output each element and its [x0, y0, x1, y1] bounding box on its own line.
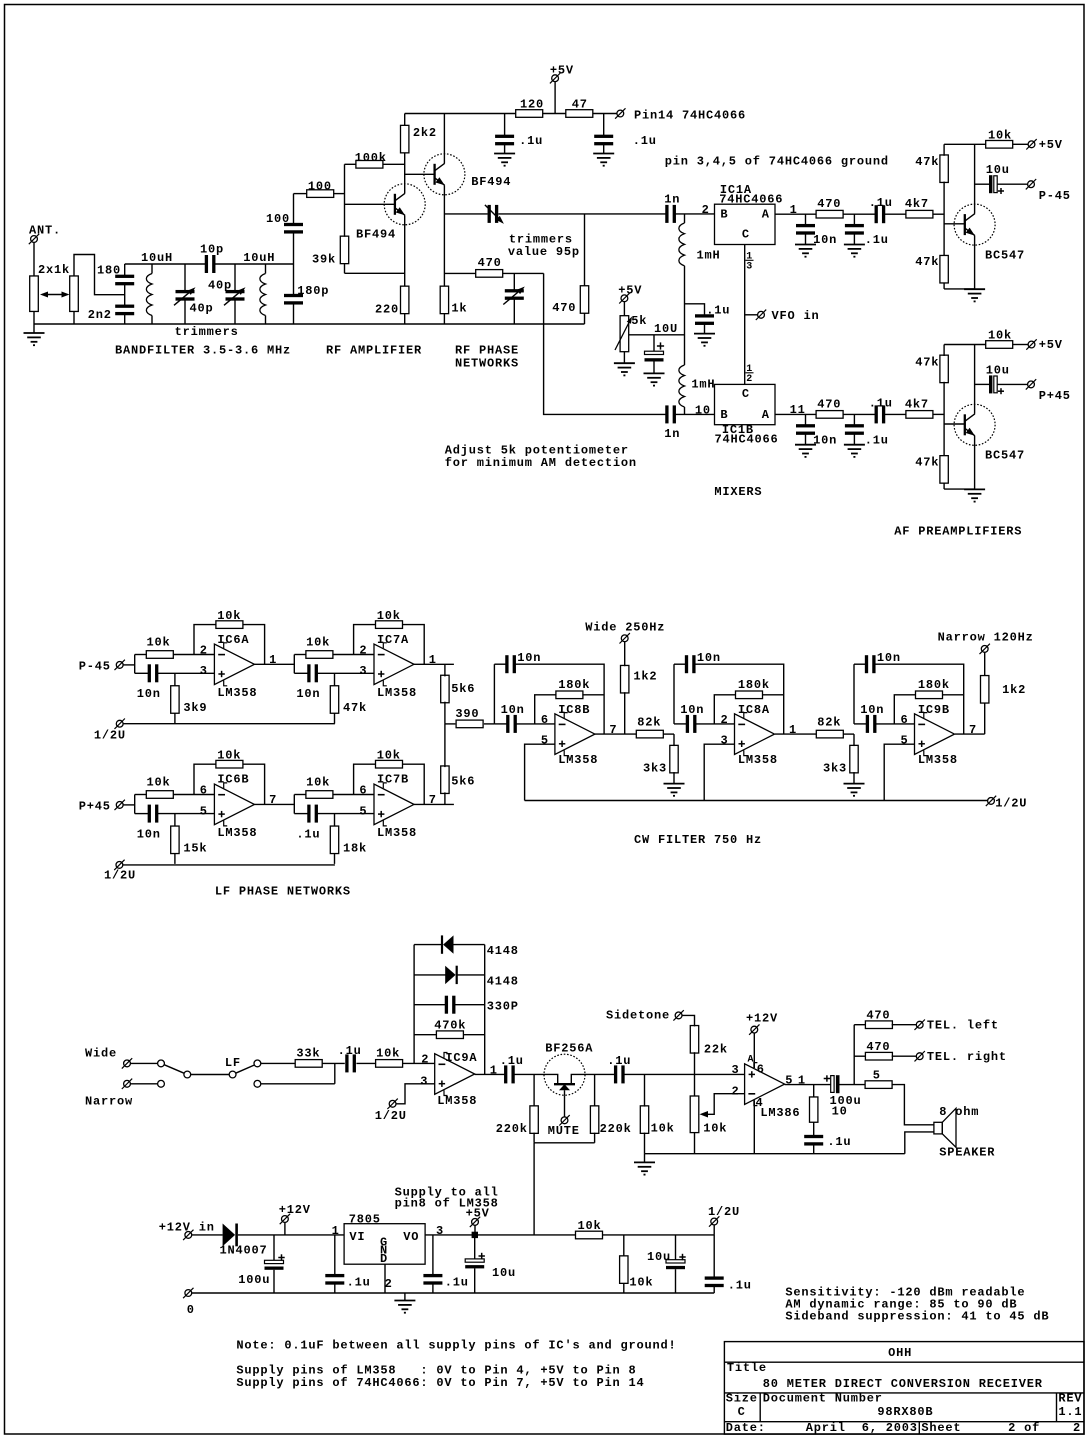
wire [74, 255, 125, 295]
svg-text:10U: 10U [654, 322, 678, 336]
switch pole 2 [229, 1071, 236, 1078]
wire base Q1 [345, 203, 395, 205]
wire narrow path [261, 1083, 335, 1085]
wire C pin column [744, 245, 746, 385]
rail 0V [192, 1292, 715, 1294]
wire [884, 213, 906, 215]
wire down to mixer2 [544, 273, 667, 414]
svg-text:LM358: LM358 [738, 753, 778, 767]
potentiometer 2x1k right [70, 276, 79, 312]
ground [795, 244, 816, 246]
wire [191, 1074, 230, 1076]
wire emitter [974, 236, 976, 289]
svg-text:A: A [748, 1055, 755, 1066]
svg-text:1/2U: 1/2U [708, 1205, 740, 1219]
svg-text:1mH: 1mH [697, 249, 721, 263]
svg-text:BC547: BC547 [985, 249, 1025, 263]
wire mixer out 2 [775, 413, 816, 415]
svg-text:470: 470 [817, 197, 841, 211]
wire emitter Q2 [443, 185, 445, 286]
bottom rail [34, 323, 585, 325]
wire 220k bottoms [534, 1142, 595, 1144]
svg-text:3: 3 [359, 664, 367, 678]
svg-text:3: 3 [732, 1063, 740, 1077]
svg-text:47k: 47k [915, 355, 939, 369]
svg-text:Wide: Wide [85, 1047, 117, 1061]
svg-text:5: 5 [901, 734, 909, 748]
svg-text:RF AMPLIFIER: RF AMPLIFIER [326, 344, 422, 358]
svg-text:BC547: BC547 [985, 449, 1025, 463]
svg-text:18k: 18k [343, 841, 367, 855]
svg-text:IC6B: IC6B [217, 773, 249, 787]
wire base 2 [944, 423, 965, 425]
svg-text:.1u: .1u [633, 134, 657, 148]
terminal MUTE [564, 1095, 566, 1117]
node vertical IC6A [134, 655, 136, 674]
wire [593, 113, 617, 115]
svg-text:LM358: LM358 [918, 753, 958, 767]
svg-text:1: 1 [790, 203, 798, 217]
svg-text:10n: 10n [296, 687, 320, 701]
svg-text:C: C [742, 227, 750, 241]
wire [843, 213, 876, 215]
svg-text:2n2: 2n2 [88, 308, 112, 322]
wire mixer out 1 [775, 213, 816, 215]
wire pin4 [753, 1100, 755, 1154]
wire [675, 213, 715, 215]
svg-text:5: 5 [200, 804, 208, 818]
wire wiper [629, 334, 685, 336]
wire [840, 1084, 866, 1086]
wire [933, 413, 944, 415]
svg-text:5k: 5k [631, 314, 647, 328]
svg-text:8 ohm: 8 ohm [939, 1105, 979, 1119]
wire out IC9A [475, 1073, 505, 1075]
svg-text:1/2U: 1/2U [995, 797, 1027, 811]
svg-text:330P: 330P [487, 1000, 519, 1014]
svg-text:100k: 100k [355, 151, 387, 165]
svg-text:47k: 47k [915, 255, 939, 269]
svg-text:CW FILTER 750 Hz: CW FILTER 750 Hz [634, 833, 762, 847]
svg-text:1k2: 1k2 [633, 670, 657, 684]
capacitor 10n shunt 2 [805, 414, 807, 425]
svg-text:pin 3,4,5 of 74HC4066 ground: pin 3,4,5 of 74HC4066 ground [665, 155, 889, 169]
ground [844, 444, 865, 446]
svg-text:LM358: LM358 [217, 826, 257, 840]
svg-text:Sidetone: Sidetone [606, 1009, 670, 1023]
svg-text:2: 2 [746, 374, 753, 385]
svg-text:2: 2 [1073, 1421, 1081, 1435]
svg-text:IC7B: IC7B [377, 773, 409, 787]
svg-text:Narrow: Narrow [85, 1095, 133, 1109]
svg-text:BANDFILTER 3.5-3.6 MHz: BANDFILTER 3.5-3.6 MHz [115, 344, 291, 358]
switch contact narrow [158, 1080, 165, 1087]
svg-text:10k: 10k [147, 776, 171, 790]
terminal VFO in [745, 314, 758, 316]
switch pole 1 [184, 1071, 191, 1078]
svg-text:220k: 220k [600, 1122, 632, 1136]
svg-text:3: 3 [200, 664, 208, 678]
svg-text:.1u: .1u [347, 1276, 371, 1290]
svg-text:10: 10 [832, 1105, 848, 1119]
op-amp LM386 [745, 1064, 785, 1105]
wire output IC7B [414, 803, 454, 805]
svg-text:D: D [380, 1252, 388, 1266]
wire top loop IC8A [694, 664, 783, 734]
node vertical IC7A [293, 655, 295, 674]
wire pin5 IC9B [884, 744, 914, 800]
svg-text:AF PREAMPLIFIERS: AF PREAMPLIFIERS [894, 525, 1022, 539]
svg-text:.1u: .1u [827, 1135, 851, 1149]
svg-text:2: 2 [421, 1053, 429, 1067]
svg-text:IC9A: IC9A [445, 1051, 477, 1065]
svg-text:1/2U: 1/2U [104, 869, 136, 883]
node vertical IC6B [134, 795, 136, 814]
wire out IC8B [595, 733, 636, 735]
wire [884, 413, 906, 415]
svg-text:Date:: Date: [726, 1421, 766, 1435]
wire pin5 IC8B [525, 744, 555, 800]
wire [33, 312, 35, 325]
tank rail [125, 263, 206, 265]
wire [261, 1062, 295, 1064]
svg-text:LF PHASE NETWORKS: LF PHASE NETWORKS [215, 885, 351, 899]
svg-text:LM358: LM358 [437, 1094, 477, 1108]
svg-text:7: 7 [969, 723, 977, 737]
svg-text:IC6A: IC6A [217, 633, 249, 647]
wire tel riser [853, 1025, 855, 1085]
svg-text:6: 6 [901, 713, 909, 727]
wiper arrow volume [707, 1094, 745, 1115]
wire out IC9B [955, 733, 985, 735]
svg-text:1k: 1k [451, 302, 467, 316]
svg-text:1n: 1n [664, 427, 680, 441]
terminal TEL left [916, 1021, 923, 1028]
svg-text:B: B [720, 408, 728, 422]
svg-text:82k: 82k [637, 716, 661, 730]
svg-text:220k: 220k [496, 1122, 528, 1136]
switch contact 2 bottom [254, 1080, 261, 1087]
wire base column [344, 164, 346, 236]
svg-text:10n: 10n [137, 687, 161, 701]
svg-text:RF PHASE: RF PHASE [455, 344, 519, 358]
terminal 1/2U audio [389, 1100, 396, 1107]
wire out IC8A [775, 733, 816, 735]
svg-text:Supply pins of 74HC4066: 0V to: Supply pins of 74HC4066: 0V to Pin 7, +5… [236, 1376, 644, 1390]
svg-text:Note: 0.1uF between all supply: Note: 0.1uF between all supply pins of I… [236, 1339, 676, 1353]
svg-text:2: 2 [721, 713, 729, 727]
svg-text:IC8A: IC8A [738, 703, 770, 717]
svg-text:VI: VI [349, 1230, 365, 1244]
capacitor .1u mixer [685, 304, 705, 316]
wire [543, 113, 566, 115]
trimmer capacitor mid [513, 273, 515, 290]
wire collector Q1 [404, 153, 406, 194]
svg-text:10n: 10n [877, 651, 901, 665]
wire output IC7A [414, 663, 454, 665]
ground [33, 324, 35, 333]
svg-text:10k: 10k [306, 776, 330, 790]
rail 1/2U cw [525, 800, 988, 802]
terminal 0V [185, 1290, 192, 1297]
svg-text:value 95p: value 95p [508, 245, 580, 259]
wire output IC6A [254, 663, 294, 665]
svg-text:.1u: .1u [869, 196, 893, 210]
svg-text:82k: 82k [817, 716, 841, 730]
ground [644, 372, 665, 374]
svg-text:10uH: 10uH [243, 251, 275, 265]
svg-text:10u: 10u [492, 1266, 516, 1280]
wire [933, 213, 944, 215]
svg-text:OHH: OHH [888, 1346, 912, 1360]
wire [585, 1073, 615, 1075]
ground [964, 488, 985, 490]
svg-text:33k: 33k [296, 1047, 320, 1061]
rail 1/2U row2 [123, 864, 335, 866]
svg-text:trimmers: trimmers [175, 325, 239, 339]
svg-text:IC7A: IC7A [377, 633, 409, 647]
svg-text:10n: 10n [813, 433, 837, 447]
svg-text:100u: 100u [238, 1273, 270, 1287]
svg-text:3: 3 [436, 1224, 444, 1238]
svg-text:220: 220 [375, 303, 399, 317]
wire emitter [974, 436, 976, 489]
svg-text:.1u: .1u [338, 1044, 362, 1058]
terminal 1/2U row1 [116, 720, 123, 727]
svg-text:10n: 10n [813, 233, 837, 247]
svg-text:SPEAKER: SPEAKER [939, 1146, 995, 1160]
wire down to supply [533, 1143, 535, 1235]
trimmer capacitor series [488, 205, 491, 223]
wire output IC6B [254, 803, 294, 805]
svg-text:6: 6 [200, 784, 208, 798]
svg-text:4148: 4148 [487, 944, 519, 958]
svg-text:10uH: 10uH [141, 251, 173, 265]
svg-text:REV: REV [1058, 1392, 1082, 1406]
transistor Q1 BF494 [384, 184, 425, 225]
svg-text:1/2U: 1/2U [375, 1109, 407, 1123]
svg-text:1mH: 1mH [691, 378, 715, 392]
svg-text:1: 1 [798, 1073, 806, 1087]
capacitor 10n shunt 1 [805, 214, 807, 225]
svg-text:C: C [742, 387, 750, 401]
switch blade 1 [164, 1065, 184, 1074]
switch blade 2 [236, 1065, 255, 1073]
terminal Pin14 [617, 110, 624, 117]
svg-text:Sideband suppression: 41 to 45: Sideband suppression: 41 to 45 dB [785, 1310, 1049, 1324]
svg-text:6: 6 [541, 713, 549, 727]
wire pin3 to 1/2U [396, 1084, 435, 1104]
svg-text:Title: Title [727, 1361, 767, 1375]
svg-text:.1u: .1u [869, 396, 893, 410]
svg-text:10n: 10n [517, 651, 541, 665]
feedback ladder right [484, 945, 486, 1075]
svg-text:47k: 47k [915, 455, 939, 469]
svg-text:2: 2 [385, 1277, 393, 1291]
svg-text:1: 1 [269, 653, 277, 667]
svg-text:47k: 47k [915, 155, 939, 169]
svg-text:10k: 10k [306, 636, 330, 650]
svg-text:10k: 10k [147, 636, 171, 650]
svg-text:3: 3 [420, 1075, 428, 1089]
svg-text:for minimum AM detection: for minimum AM detection [445, 456, 637, 470]
svg-text:100: 100 [308, 180, 332, 194]
svg-text:40p: 40p [190, 302, 214, 316]
svg-text:BF494: BF494 [471, 175, 511, 189]
ground [844, 783, 865, 785]
svg-text:5k6: 5k6 [451, 775, 475, 789]
capacitor .1u zobel [804, 1135, 823, 1138]
svg-text:4: 4 [756, 1096, 764, 1110]
svg-text:LM358: LM358 [377, 686, 417, 700]
wire gnd pin [384, 1264, 386, 1293]
wire pin6 +12V [753, 1033, 755, 1068]
trimmer capacitor 40p left [184, 264, 186, 292]
svg-text:47k: 47k [343, 701, 367, 715]
wire [345, 272, 405, 274]
svg-text:11: 11 [790, 403, 806, 417]
wire [73, 312, 75, 325]
svg-text:4148: 4148 [487, 975, 519, 989]
wire [498, 213, 666, 215]
svg-text:74HC4066: 74HC4066 [715, 433, 779, 447]
svg-text:Document Number: Document Number [763, 1392, 883, 1406]
node vertical IC9B [853, 664, 855, 724]
svg-text:TEL. right: TEL. right [927, 1050, 1007, 1064]
ground [844, 244, 865, 246]
wire top loop IC8B [515, 664, 604, 734]
svg-text:10k: 10k [703, 1122, 727, 1136]
terminal 1/2U row2 [116, 862, 123, 869]
svg-text:A: A [762, 208, 770, 222]
svg-text:4k7: 4k7 [905, 397, 929, 411]
svg-text:10k: 10k [629, 1276, 653, 1290]
rail half u [603, 1234, 714, 1236]
svg-text:+5V: +5V [466, 1207, 490, 1221]
svg-text:2 of: 2 of [1008, 1421, 1040, 1435]
svg-text:1n: 1n [664, 193, 680, 207]
svg-text:VO: VO [403, 1230, 419, 1244]
wire [944, 288, 975, 290]
wire collector Q2 [443, 114, 445, 164]
ground [593, 153, 614, 155]
wire VO [425, 1234, 575, 1236]
resistor 10 zobel [813, 1085, 815, 1097]
svg-text:A: A [762, 408, 770, 422]
svg-text:180k: 180k [558, 678, 590, 692]
wire top loop IC9B [874, 664, 963, 734]
svg-text:180k: 180k [738, 678, 770, 692]
svg-text:10n: 10n [697, 651, 721, 665]
svg-text:470: 470 [552, 301, 576, 315]
wire [944, 488, 975, 490]
svg-text:MUTE: MUTE [548, 1124, 580, 1138]
svg-text:Size: Size [726, 1392, 758, 1406]
svg-text:VFO in: VFO in [772, 309, 820, 323]
svg-text:2k2: 2k2 [413, 126, 437, 140]
svg-text:10u: 10u [986, 363, 1010, 377]
wire 470 row [444, 272, 475, 274]
svg-text:10u: 10u [986, 163, 1010, 177]
node vertical IC8A [673, 664, 675, 724]
svg-text:390: 390 [455, 707, 479, 721]
svg-text:470: 470 [478, 256, 502, 270]
svg-text:Wide 250Hz: Wide 250Hz [585, 621, 665, 635]
wire RF out [444, 213, 487, 215]
svg-text:5: 5 [359, 804, 367, 818]
svg-text:.1u: .1u [519, 134, 543, 148]
svg-text:39k: 39k [312, 253, 336, 267]
svg-text:22k: 22k [704, 1043, 728, 1057]
title block frame [724, 1342, 1084, 1435]
svg-text:Pin14 74HC4066: Pin14 74HC4066 [634, 109, 746, 123]
svg-text:NETWORKS: NETWORKS [455, 357, 519, 371]
svg-text:3k9: 3k9 [183, 701, 207, 715]
svg-text:98RX80B: 98RX80B [877, 1405, 933, 1419]
potentiometer 2x1k left [30, 276, 39, 312]
wire pin5 IC8A [704, 744, 734, 800]
switch contact wide [158, 1060, 165, 1067]
terminal +5V 2 [1028, 341, 1035, 348]
svg-text:4k7: 4k7 [905, 197, 929, 211]
svg-text:10u: 10u [647, 1250, 671, 1264]
svg-text:10n: 10n [860, 703, 884, 717]
switch contact 2 top [254, 1060, 261, 1067]
wire collector [974, 345, 976, 414]
ground [494, 153, 515, 155]
wire [334, 1063, 336, 1083]
svg-text:BF256A: BF256A [545, 1042, 593, 1056]
capacitor .1u shunt 1 [853, 214, 855, 225]
svg-text:3: 3 [721, 734, 729, 748]
diode 4148 top [414, 944, 442, 946]
svg-text:7: 7 [269, 793, 277, 807]
terminal +5V 1 [1028, 141, 1035, 148]
speaker [934, 1122, 942, 1134]
svg-text:April 6, 2003: April 6, 2003 [806, 1421, 918, 1435]
junction dot [472, 1232, 478, 1238]
ground rail audio [645, 1153, 905, 1155]
top rail +5V [405, 113, 516, 115]
wire [892, 1085, 934, 1125]
svg-text:10n: 10n [137, 827, 161, 841]
ground [795, 444, 816, 446]
terminal +12V lm386 [751, 1026, 758, 1033]
svg-text:1: 1 [490, 1064, 498, 1078]
svg-text:1/2U: 1/2U [94, 729, 126, 743]
svg-text:5: 5 [785, 1073, 793, 1087]
svg-text:LM358: LM358 [217, 686, 257, 700]
svg-text:1: 1 [332, 1224, 340, 1238]
svg-text:80 METER DIRECT CONVERSION REC: 80 METER DIRECT CONVERSION RECEIVER [763, 1377, 1043, 1391]
svg-text:C: C [738, 1405, 746, 1419]
svg-text:IC9B: IC9B [918, 703, 950, 717]
svg-text:LM386: LM386 [760, 1106, 800, 1120]
ground psu [404, 1293, 406, 1301]
svg-text:7: 7 [609, 723, 617, 737]
capacitor .1u right [603, 114, 605, 137]
svg-text:3: 3 [746, 262, 753, 273]
svg-text:+12V: +12V [279, 1203, 311, 1217]
transistor BC547 2 [954, 404, 995, 445]
transistor Q2 BF494 [424, 154, 465, 195]
svg-text:6: 6 [757, 1062, 765, 1076]
ground [614, 362, 635, 364]
svg-text:P+45: P+45 [79, 800, 111, 814]
svg-text:1N4007: 1N4007 [220, 1244, 268, 1258]
feedback ladder left [413, 945, 415, 1064]
terminal P+45 [1028, 381, 1035, 388]
